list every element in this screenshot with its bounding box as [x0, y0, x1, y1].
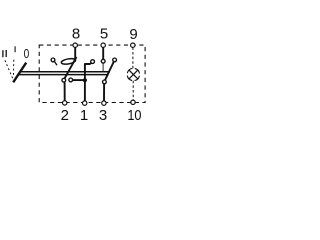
terminal 9: [131, 43, 135, 47]
wire: terminal 8 stem: [74, 47, 76, 60]
moving arm of contact 5-3: [105, 62, 114, 81]
switch body dashed box: [39, 45, 145, 102]
terminal 2: [62, 101, 66, 105]
dashed ray position I: [12, 60, 14, 77]
wire: terminal 5 stem: [102, 47, 104, 59]
svg-text:2: 2: [61, 107, 69, 124]
wire: terminal 2 stem: [64, 82, 66, 101]
svg-text:10: 10: [127, 106, 141, 123]
mechanical link bar lower: [18, 74, 109, 76]
terminal 1: [83, 101, 87, 105]
lamp wire upper (dashed): [132, 47, 134, 68]
svg-text:0: 0: [24, 47, 30, 61]
svg-text:9: 9: [129, 26, 137, 43]
position mark II: [2, 50, 4, 57]
terminal 3: [102, 101, 106, 105]
contact circle with tail (terminal 1 upper): [91, 60, 95, 64]
contact circle terminal 5: [101, 59, 105, 63]
mechanical link bar upper: [21, 71, 110, 73]
dashed ray position II: [5, 60, 13, 78]
terminal 8: [73, 43, 77, 47]
fixed contact circle with tail (left): [51, 58, 55, 62]
fixed contact circle (right top): [113, 58, 117, 62]
lamp (illumination): [127, 68, 139, 80]
terminal 10: [131, 100, 135, 104]
contact bridge oval (terminal 8): [61, 58, 76, 65]
svg-text:5: 5: [100, 26, 108, 43]
wire: upper contact to terminal 1: [85, 63, 92, 101]
lamp wire lower (dashed): [132, 81, 134, 100]
svg-text:3: 3: [99, 107, 107, 124]
wire: terminal 3 stem: [103, 84, 105, 101]
position mark I: [14, 46, 16, 52]
junction dot on terminal 1 wire: [83, 78, 87, 82]
contact circle on terminal 3 stem: [103, 80, 107, 84]
terminal 5: [101, 43, 105, 47]
svg-text:8: 8: [72, 26, 80, 43]
contact circle wired to terminal 1: [69, 78, 73, 82]
svg-text:1: 1: [80, 107, 88, 124]
wire: contact to junction: [73, 79, 85, 81]
contact circle on terminal 2 stem: [62, 78, 66, 82]
moving arm of contact 8: [65, 57, 77, 79]
lever (position 0): [13, 63, 26, 83]
actuator rod below contact 5: [102, 63, 104, 71]
